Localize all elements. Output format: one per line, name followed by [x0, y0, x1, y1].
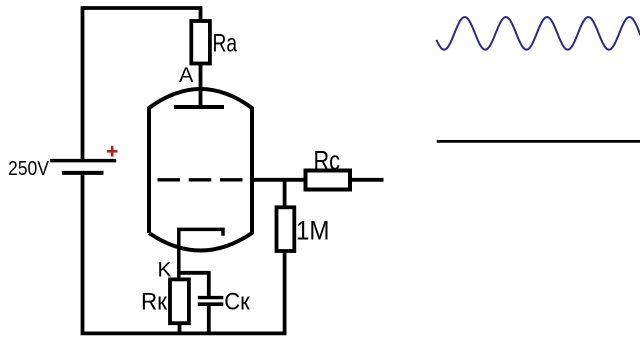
svg-text:1M: 1M	[296, 215, 330, 245]
svg-text:Rc: Rc	[314, 146, 341, 176]
svg-text:A: A	[179, 63, 194, 87]
svg-text:250V: 250V	[8, 158, 50, 180]
svg-text:Cк: Cк	[224, 288, 250, 315]
svg-text:Ra: Ra	[213, 29, 238, 57]
svg-text:Rк: Rк	[141, 288, 167, 315]
svg-text:K: K	[158, 259, 172, 282]
